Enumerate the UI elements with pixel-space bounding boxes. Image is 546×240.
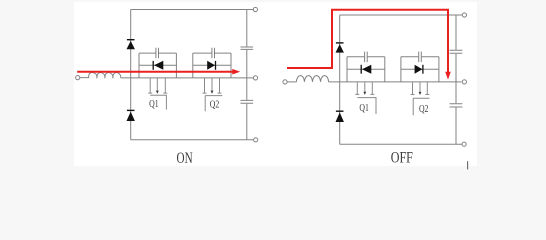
- gate structure of Q1 right: [355, 82, 376, 114]
- diode D2 lower on left branch: [127, 110, 135, 121]
- wire: main middle rail y=81.9: [329, 81, 462, 83]
- wire: top rail y=9.5: [131, 9, 254, 11]
- MOSFET Q1 module box: [139, 48, 176, 78]
- body diode of Q2 right (points right): [415, 65, 423, 74]
- MOSFET Q2 module box: [193, 48, 231, 78]
- capacitor C4 (plates): [450, 104, 463, 107]
- inductor L (humped coil): [296, 76, 328, 82]
- wire: main middle rail y=77.9: [121, 77, 254, 79]
- svg-text:Q2: Q2: [210, 98, 220, 109]
- terminal top right (circle): [253, 7, 257, 11]
- terminal bottom right (circle): [462, 142, 466, 146]
- white canvas background: [74, 2, 477, 166]
- wire: left vertical branch x=130.7: [130, 10, 132, 140]
- body diode of Q2 (points right): [207, 61, 215, 70]
- body diode of Q1 (points left): [153, 61, 163, 70]
- terminal middle right (circle): [462, 80, 466, 84]
- wire: bottom rail y=144.2: [340, 143, 462, 145]
- cursor artifact bottom right: [467, 161, 469, 169]
- wire input to inductor: [287, 81, 296, 83]
- svg-text:Q1: Q1: [149, 98, 159, 109]
- wire: top rail y=15: [340, 14, 463, 16]
- MOSFET Q1 module box (right circuit): [347, 52, 385, 83]
- body diode of Q1 right (points left): [361, 65, 371, 74]
- MOSFET Q2 module box (right circuit): [401, 52, 439, 83]
- terminal top right (circle): [462, 13, 466, 17]
- wire: left vertical branch x=339.7: [339, 15, 341, 144]
- gate structure of Q2 right: [411, 82, 430, 115]
- diode D3 upper on left branch: [336, 43, 344, 53]
- wire input to inductor: [80, 75, 89, 77]
- wire: right vertical branch x=246.8 (segments between capacitors): [246, 10, 248, 140]
- svg-text:OFF: OFF: [391, 150, 413, 167]
- wire: bottom rail y=139.8: [131, 139, 254, 141]
- terminal middle right (circle): [253, 76, 257, 80]
- wire: right vertical branch x=456: [455, 15, 457, 144]
- gate structure of Q2: [203, 78, 223, 111]
- capacitor C2 (plates): [241, 100, 254, 103]
- capacitor C3 (plates): [450, 50, 463, 53]
- svg-text:Q2: Q2: [419, 103, 429, 114]
- terminal input left (circle): [76, 76, 80, 80]
- gate structure of Q1: [148, 78, 167, 110]
- diode D1 upper on left branch: [127, 40, 135, 50]
- red current path OFF: [287, 10, 451, 80]
- terminal input left (circle): [283, 80, 287, 84]
- inductor L (looped coil): [89, 73, 121, 79]
- red current path ON: [77, 69, 240, 75]
- svg-text:ON: ON: [177, 149, 193, 166]
- svg-text:Q1: Q1: [359, 102, 369, 113]
- terminal bottom right (circle): [254, 138, 258, 142]
- capacitor C1 (plates): [241, 47, 254, 49]
- diode D4 lower on left branch: [336, 111, 344, 122]
